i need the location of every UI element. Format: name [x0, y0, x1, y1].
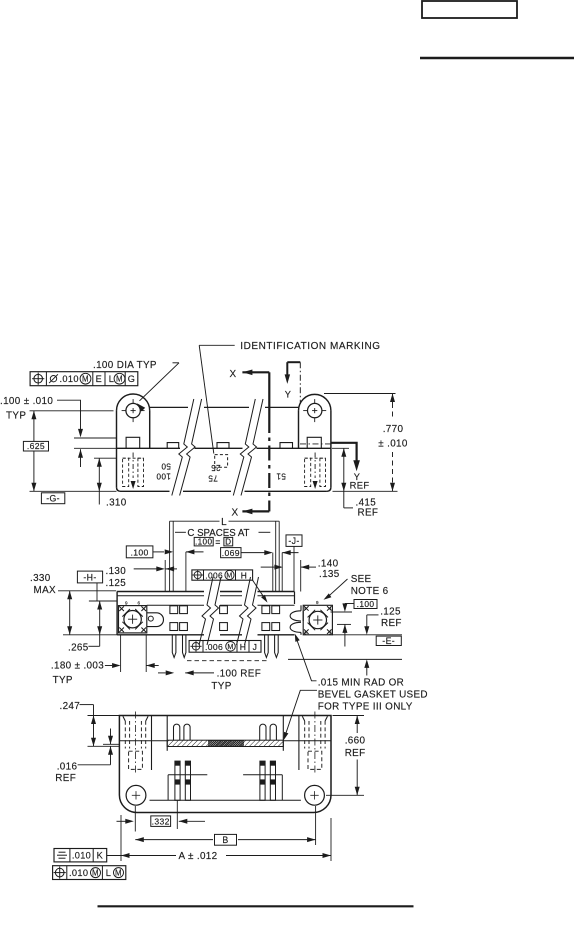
svg-text:.247: .247: [60, 701, 81, 712]
svg-text:=: =: [215, 537, 221, 547]
svg-text:G: G: [128, 374, 136, 384]
svg-text:REF: REF: [345, 748, 366, 759]
svg-text:.100: .100: [131, 547, 149, 557]
svg-text:9: 9: [125, 600, 128, 605]
svg-text:.125: .125: [380, 606, 401, 617]
svg-text:M: M: [92, 868, 99, 877]
svg-text:Y: Y: [285, 389, 291, 399]
svg-text:M: M: [82, 375, 89, 384]
svg-text:REF: REF: [55, 773, 76, 784]
svg-text:.660: .660: [345, 736, 366, 747]
svg-text:.006: .006: [205, 642, 223, 652]
svg-text:.125: .125: [106, 578, 127, 589]
svg-text:.770: .770: [383, 424, 404, 435]
svg-text:TYP: TYP: [6, 410, 26, 421]
svg-text:.100 ± .010: .100 ± .010: [0, 396, 53, 407]
svg-text:NOTE 6: NOTE 6: [351, 586, 389, 597]
svg-text:-H-: -H-: [83, 572, 96, 582]
svg-text:.016: .016: [57, 762, 78, 773]
svg-text:B: B: [222, 835, 228, 845]
svg-text:L: L: [109, 374, 114, 384]
svg-text:.265: .265: [68, 642, 89, 653]
svg-text:A ± .012: A ± .012: [179, 851, 218, 862]
svg-text:100: 100: [156, 472, 171, 481]
svg-text:TYP: TYP: [53, 675, 73, 686]
svg-text:.625: .625: [27, 441, 45, 451]
svg-text:REF: REF: [381, 618, 402, 629]
svg-text:6: 6: [138, 600, 141, 605]
svg-text:M: M: [116, 375, 123, 384]
svg-text:E: E: [96, 374, 102, 384]
svg-text:BEVEL GASKET USED: BEVEL GASKET USED: [318, 689, 428, 700]
svg-text:.330: .330: [30, 573, 51, 584]
svg-text:.100: .100: [195, 538, 212, 547]
svg-text:.332: .332: [152, 816, 170, 826]
svg-text:IDENTIFICATION MARKING: IDENTIFICATION MARKING: [240, 341, 380, 352]
svg-text:.010: .010: [72, 851, 91, 861]
svg-text:2: 2: [329, 630, 332, 635]
svg-text:M: M: [226, 573, 232, 580]
svg-text:.130: .130: [106, 566, 127, 577]
svg-text:REF: REF: [350, 479, 370, 490]
svg-text:.100 DIA TYP: .100 DIA TYP: [93, 360, 157, 371]
svg-text:9: 9: [316, 600, 319, 605]
svg-text:.100: .100: [357, 599, 375, 609]
svg-text:.006: .006: [205, 570, 223, 580]
svg-text:TYP: TYP: [211, 681, 231, 692]
svg-text:SEE: SEE: [351, 574, 372, 585]
svg-text:± .010: ± .010: [378, 438, 408, 449]
svg-text:.310: .310: [106, 498, 127, 509]
svg-text:FOR TYPE III ONLY: FOR TYPE III ONLY: [318, 701, 413, 712]
svg-text:.180 ± .003: .180 ± .003: [51, 661, 104, 672]
svg-text:8: 8: [304, 630, 307, 635]
svg-text:J: J: [253, 642, 258, 652]
svg-text:51: 51: [276, 472, 286, 481]
svg-text:.010: .010: [60, 374, 79, 384]
svg-text:L: L: [106, 868, 111, 878]
svg-text:4: 4: [329, 606, 332, 611]
svg-text:H: H: [240, 642, 247, 652]
svg-text:M: M: [227, 642, 233, 651]
svg-text:9: 9: [304, 606, 307, 611]
svg-text:REF: REF: [358, 508, 379, 519]
svg-text:.100 REF: .100 REF: [217, 669, 262, 680]
svg-text:.135: .135: [319, 569, 340, 580]
svg-text:M: M: [115, 868, 122, 877]
svg-text:K: K: [97, 851, 104, 861]
svg-text:L: L: [221, 517, 227, 528]
svg-text:-G-: -G-: [46, 494, 60, 504]
svg-text:-J-: -J-: [288, 536, 299, 546]
svg-text:MAX: MAX: [34, 585, 57, 596]
svg-text:H: H: [241, 570, 247, 580]
svg-text:75: 75: [208, 474, 218, 483]
svg-text:D: D: [225, 538, 231, 547]
svg-text:-E-: -E-: [382, 636, 395, 646]
svg-text:X: X: [230, 369, 237, 380]
svg-text:.069: .069: [222, 548, 240, 558]
svg-text:X: X: [232, 507, 239, 518]
svg-text:.015 MIN RAD OR: .015 MIN RAD OR: [318, 677, 404, 688]
svg-text:50: 50: [161, 462, 171, 471]
svg-text:.140: .140: [318, 558, 339, 569]
svg-text:.010: .010: [69, 868, 88, 878]
svg-text:25: 25: [211, 463, 221, 472]
